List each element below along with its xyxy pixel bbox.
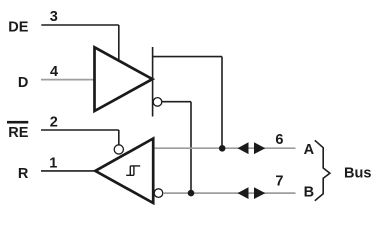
- bus brace: [315, 140, 330, 201]
- wire RE pin 2 horizontal: [41, 129, 119, 131]
- wire RE pin 2 vertical to bubble: [118, 130, 120, 145]
- svg-text:3: 3: [50, 9, 58, 25]
- receiver U2 triangle: [95, 139, 153, 204]
- label RE overline: [7, 121, 28, 124]
- svg-text:2: 2: [50, 114, 58, 130]
- svg-text:7: 7: [275, 174, 283, 190]
- svg-text:6: 6: [275, 132, 283, 148]
- svg-text:R: R: [18, 166, 29, 182]
- wire DE pin 3 vertical into driver top edge: [118, 25, 120, 61]
- wire bus line A (gray): [155, 147, 296, 149]
- hysteresis symbol inside receiver: [126, 166, 140, 175]
- wire driver noninverting output to A branch: [153, 56, 222, 58]
- wire A branch vertical down to bus A: [221, 57, 223, 149]
- driver U1 triangle: [95, 47, 153, 111]
- junction dot on bus A: [219, 145, 226, 152]
- svg-text:1: 1: [49, 156, 57, 172]
- svg-text:Bus: Bus: [344, 165, 371, 181]
- driver inverting output bubble: [153, 98, 162, 107]
- receiver inverting input bubble: [154, 189, 163, 198]
- svg-text:B: B: [304, 185, 314, 201]
- svg-text:RE: RE: [8, 125, 28, 141]
- svg-text:D: D: [18, 75, 28, 91]
- wire D pin 4 (gray): [41, 79, 94, 81]
- junction dot on bus B: [188, 190, 195, 197]
- receiver enable bubble: [114, 145, 123, 154]
- wire R pin 1 horizontal: [41, 170, 95, 172]
- svg-text:A: A: [304, 142, 315, 158]
- wire bus line B (gray): [163, 192, 296, 194]
- wire DE pin 3 horizontal: [41, 24, 119, 26]
- wire driver output vertical bus: [152, 47, 154, 117]
- bidirectional arrowheads on bus B: [238, 187, 249, 199]
- wire driver inverting output horizontal: [162, 101, 191, 103]
- svg-text:4: 4: [50, 64, 58, 80]
- wire B branch vertical down to bus B: [190, 102, 192, 193]
- svg-text:DE: DE: [8, 19, 28, 35]
- bidirectional arrowheads on bus A: [238, 142, 249, 154]
